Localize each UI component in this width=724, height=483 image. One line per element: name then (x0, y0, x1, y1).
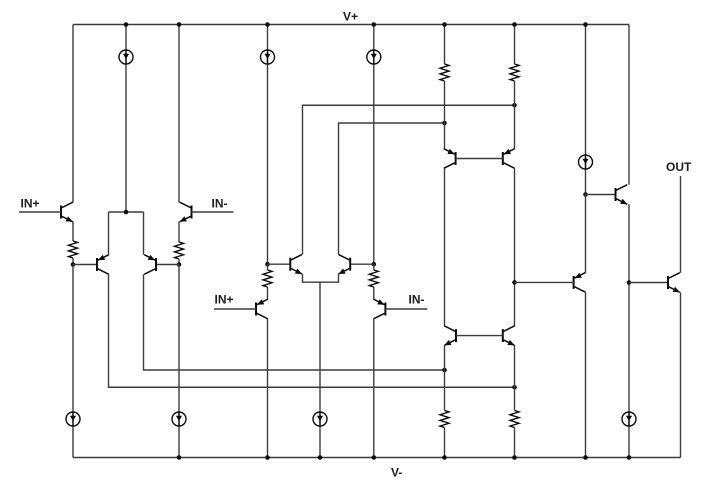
wire W2 node to resistor R10 (514, 387, 516, 410)
resistor R6 (373, 264, 375, 270)
wire V+ rail (73, 24, 629, 26)
transistor Q15 (667, 276, 669, 289)
wire Q10 collector down (514, 168, 516, 326)
transistor Q2 (191, 206, 193, 219)
current source I5 (66, 412, 80, 426)
node T1 (124, 210, 129, 215)
wire V+ to current source I2 (267, 25, 269, 265)
resistor R2 (175, 242, 184, 259)
wire node B to Q4 base (156, 264, 179, 266)
current source I7 (313, 412, 327, 426)
wire to Q3 emitter (108, 212, 110, 255)
current source I4 (579, 155, 593, 169)
wire V+ to current source I4 (585, 25, 587, 195)
wire Q9 collector down (444, 168, 446, 326)
svg-text:V+: V+ (343, 10, 358, 24)
resistor R5 (267, 264, 269, 270)
wire node A to current source I5 (72, 265, 74, 458)
wire IN- 2 base (385, 308, 427, 310)
wire R7 to diamond (444, 81, 446, 149)
transistor Q6 (384, 303, 386, 316)
wire Q4 collector down (144, 274, 445, 370)
wire W1 node to resistor R9 (444, 370, 446, 411)
wire Q2 emitter (178, 222, 180, 243)
wire Q5 collector to V- (267, 319, 269, 458)
wire node D to Q8 base (350, 263, 374, 265)
transistor Q9 (455, 152, 457, 165)
transistor Q11 (455, 329, 457, 342)
wire Q14 collector to V+ (628, 25, 630, 185)
transistor Q7 (289, 258, 291, 271)
node W2 junction (512, 385, 517, 390)
resistor R8 (510, 64, 519, 81)
wire V+ to resistor R7 (444, 25, 446, 65)
wire R8 to diamond (514, 81, 516, 149)
wire IN- base (192, 211, 234, 213)
wire tail to current source I7 (319, 282, 321, 457)
resistor R7 (440, 64, 449, 81)
wire R9 to V- (444, 428, 446, 458)
node W1 junction (442, 368, 447, 373)
wire Q3 collector down (109, 274, 515, 387)
resistor R10 (510, 411, 519, 428)
wire V+ to current source I3 (373, 25, 375, 265)
wire node B to current source I6 (178, 265, 180, 458)
wire emitter bus Q3-Q4 (109, 211, 144, 213)
svg-text:V-: V- (391, 466, 402, 480)
transistor Q13 (573, 276, 575, 289)
wire node to Q13 emitter (585, 195, 587, 273)
transistor Q5 (255, 303, 257, 316)
transistor Q3 (96, 258, 98, 271)
transistor Q12 (502, 329, 504, 342)
resistor R9 (440, 411, 449, 428)
wire V+ to resistor R8 (514, 25, 516, 65)
transistor Q1 (60, 206, 62, 219)
wire to Q4 emitter (143, 212, 145, 255)
svg-text:OUT: OUT (666, 160, 692, 174)
svg-text:IN-: IN- (212, 197, 228, 211)
wire Q13 base from diamond (515, 281, 574, 283)
wire Q7 collector loop to node R8 top (303, 105, 515, 254)
current source I1 (119, 50, 133, 64)
wire Q15 base (629, 282, 668, 284)
wire IN+ 2 base (214, 308, 256, 310)
current source I3 (367, 50, 381, 64)
svg-text:IN+: IN+ (21, 197, 40, 211)
wire Q11 emitter to node W1 (444, 345, 446, 370)
wire Q6 collector to V- (373, 319, 375, 458)
wire Q9-Q10 base link (456, 158, 503, 160)
wire R10 to V- (514, 428, 516, 458)
transistor Q14 (615, 188, 617, 201)
node Q14 base node (583, 192, 588, 197)
wire node C to Q7 base (268, 263, 291, 265)
transistor Q10 (502, 152, 504, 165)
node A (71, 262, 76, 267)
wire Q13 collector to V- (585, 292, 587, 457)
node Q15 base node (627, 280, 632, 285)
node C (265, 262, 270, 267)
wire Q2 collector to V+ (178, 25, 180, 203)
svg-text:IN-: IN- (409, 293, 425, 307)
current source I8 (622, 412, 636, 426)
wire IN+ base (19, 211, 61, 213)
current source I2 (261, 50, 275, 64)
node loop2 junction (442, 121, 447, 126)
wire R1 to node A (72, 258, 74, 265)
node loop1 junction (512, 103, 517, 108)
wire V- rail (73, 457, 681, 459)
wire Q14 emitter to Q15 base node (628, 204, 630, 457)
wire V+ to current source I1 (125, 25, 127, 213)
resistor R1 (69, 241, 78, 258)
wire R6 to Q6 emitter (373, 287, 375, 300)
wire Q14 base (586, 194, 616, 196)
wire Q1 collector to V+ (72, 25, 74, 203)
wire Q15 emitter to V- (680, 292, 682, 457)
node D (372, 262, 377, 267)
wire node A to Q3 base (73, 264, 97, 266)
wire Q8 collector loop to node R7 top (339, 123, 445, 254)
current source I6 (172, 412, 186, 426)
node B (177, 262, 182, 267)
wire R5 to Q5 emitter (267, 287, 269, 300)
svg-text:IN+: IN+ (215, 293, 234, 307)
wire Q1 emitter (72, 222, 74, 242)
wire Q12 emitter to node W2 (514, 345, 516, 387)
wire OUT stub (680, 176, 682, 273)
wire Q11-Q12 base link (456, 335, 503, 337)
transistor Q8 (349, 258, 351, 271)
wire Q7-Q8 emitter bus (303, 274, 339, 282)
wire R2 to node B (178, 259, 180, 265)
transistor Q4 (155, 258, 157, 271)
node Q13 base tap (512, 280, 517, 285)
